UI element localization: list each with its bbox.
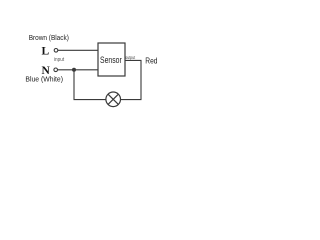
wire bottom to lamp (74, 99, 106, 101)
svg-text:Brown (Black): Brown (Black) (29, 33, 69, 42)
lamp cross stroke 1 (108, 94, 118, 104)
wire junction down (73, 70, 75, 100)
junction dot on N wire (72, 68, 76, 72)
svg-text:L: L (42, 46, 50, 58)
wire lamp to right vertical (121, 99, 142, 101)
svg-text:Blue (White): Blue (White) (25, 74, 63, 83)
svg-text:input: input (54, 57, 65, 63)
wire L to sensor (58, 49, 98, 51)
lamp L1 circle (106, 92, 121, 107)
sensor box U1 (98, 43, 125, 76)
wire N to sensor (58, 69, 98, 71)
svg-text:output: output (125, 55, 136, 60)
svg-text:Red: Red (145, 56, 158, 65)
lamp cross stroke 2 (108, 94, 118, 104)
svg-text:Sensor: Sensor (100, 55, 122, 65)
terminal circle L (54, 49, 58, 53)
output wire right and down (125, 60, 142, 99)
terminal circle N (54, 68, 58, 72)
